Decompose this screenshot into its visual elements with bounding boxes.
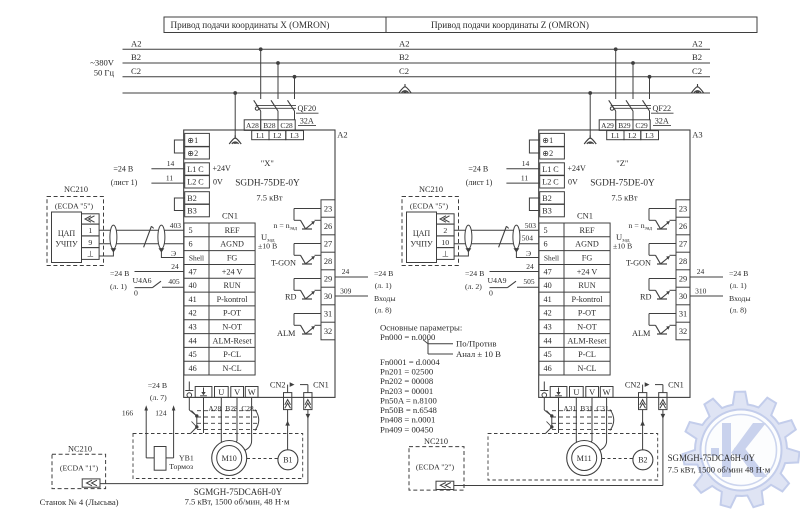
svg-text:47: 47 [189,267,197,276]
svg-text:Привод подачи координаты X (OM: Привод подачи координаты X (OMRON) [171,20,330,30]
svg-text:L2 C: L2 C [542,178,558,187]
svg-text:M11: M11 [577,454,592,463]
svg-text:P-OT: P-OT [223,309,241,318]
svg-text:N-CL: N-CL [577,364,596,373]
svg-text:U4A6: U4A6 [133,276,152,285]
svg-text:C29: C29 [635,121,648,130]
svg-text:+24 V: +24 V [577,267,598,276]
svg-text:B2: B2 [638,456,647,465]
svg-text:A2: A2 [399,38,410,48]
svg-text:AGND: AGND [575,240,599,249]
svg-text:Pn50A = n.8100: Pn50A = n.8100 [380,395,437,405]
svg-text:NC210: NC210 [424,437,448,446]
svg-text:ALM: ALM [277,329,296,338]
svg-text:50 Гц: 50 Гц [94,68,115,78]
svg-text:503: 503 [525,221,537,230]
svg-text:7.5 кВт, 1500 об/мин, 48 Н·м: 7.5 кВт, 1500 об/мин, 48 Н·м [185,496,290,506]
svg-text:P-kontrol: P-kontrol [572,295,604,304]
svg-text:(л. 1): (л. 1) [730,281,747,290]
svg-text:45: 45 [544,350,552,359]
svg-text:U: U [218,388,224,397]
svg-text:⊥: ⊥ [87,250,94,259]
svg-text:Э: Э [526,249,531,258]
svg-text:28: 28 [324,257,332,266]
svg-text:⊕1: ⊕1 [187,136,198,145]
svg-text:⊕2: ⊕2 [542,149,553,158]
svg-text:31: 31 [679,309,687,318]
svg-text:CN1: CN1 [222,211,238,221]
svg-text:Shell: Shell [544,253,559,262]
svg-text:29: 29 [679,274,687,283]
svg-text:5: 5 [189,226,193,235]
svg-text:CN1: CN1 [577,211,593,221]
svg-text:A3: A3 [692,129,702,139]
svg-text:P-CL: P-CL [223,350,241,359]
svg-text:CN2: CN2 [625,380,641,389]
svg-text:42: 42 [189,309,197,318]
svg-text:32A: 32A [655,117,669,126]
svg-text:27: 27 [679,239,687,248]
svg-text:43: 43 [544,323,552,332]
svg-text:(ECDA "5"): (ECDA "5") [55,202,94,211]
svg-text:30: 30 [324,292,332,301]
svg-text:CN1: CN1 [668,380,684,389]
svg-text:FG: FG [227,253,238,262]
svg-text:Анал ± 10 В: Анал ± 10 В [456,349,501,359]
svg-text:YB1: YB1 [179,453,194,462]
svg-text:~380V: ~380V [90,58,115,68]
svg-text:NC210: NC210 [64,185,88,194]
svg-text:C28: C28 [241,404,254,413]
svg-text:C2: C2 [399,66,409,76]
svg-text:0V: 0V [568,178,578,187]
svg-text:46: 46 [544,364,552,373]
svg-text:(л. 2): (л. 2) [465,282,482,291]
svg-text:QF22: QF22 [653,104,672,113]
svg-text:=24 В: =24 В [729,269,748,278]
svg-text:Pn50B = n.6548: Pn50B = n.6548 [380,405,437,415]
svg-text:По/Против: По/Против [456,339,496,349]
svg-text:RUN: RUN [223,281,240,290]
svg-text:M10: M10 [222,454,237,463]
svg-text:23: 23 [324,204,332,213]
svg-text:B2: B2 [692,52,702,62]
svg-text:C2: C2 [131,66,141,76]
svg-text:A2: A2 [337,129,347,139]
svg-text:505: 505 [523,277,535,286]
svg-text:±10 В: ±10 В [613,242,632,251]
svg-text:309: 309 [340,287,352,296]
svg-text:A28: A28 [208,404,221,413]
svg-text:31: 31 [324,309,332,318]
svg-text:0: 0 [489,288,493,297]
svg-text:=24 В: =24 В [465,269,484,278]
svg-text:ЦАП: ЦАП [58,229,76,238]
svg-text:=24 В: =24 В [148,381,167,390]
svg-text:24: 24 [697,267,705,276]
svg-text:RD: RD [285,293,297,302]
svg-text:CN2: CN2 [270,380,286,389]
svg-text:27: 27 [324,239,332,248]
svg-text:±10 В: ±10 В [258,242,277,251]
svg-text:41: 41 [189,295,197,304]
svg-text:RD: RD [640,293,652,302]
svg-text:Э: Э [171,249,176,258]
svg-text:(ECDA "1"): (ECDA "1") [60,463,99,472]
svg-text:=24 В: =24 В [468,165,488,174]
svg-text:44: 44 [189,336,197,345]
svg-text:166: 166 [122,408,133,417]
svg-text:405: 405 [168,277,180,286]
svg-text:+24 V: +24 V [222,267,243,276]
svg-text:10: 10 [441,238,449,247]
svg-text:Тормоз: Тормоз [169,462,193,471]
svg-text:B2: B2 [131,52,141,62]
svg-text:REF: REF [579,226,594,235]
svg-text:ALM-Reset: ALM-Reset [213,336,253,345]
svg-text:B2: B2 [399,52,409,62]
svg-text:=24 В: =24 В [374,269,393,278]
svg-text:0: 0 [134,288,138,297]
svg-text:SGDH-75DE-0Y: SGDH-75DE-0Y [235,178,300,188]
svg-text:A28: A28 [246,121,259,130]
svg-text:26: 26 [324,222,332,231]
svg-text:U: U [573,388,579,397]
svg-text:42: 42 [544,309,552,318]
svg-text:Входы: Входы [729,294,751,303]
svg-text:+24V: +24V [568,164,587,173]
svg-text:⊕1: ⊕1 [542,136,553,145]
svg-text:C31: C31 [596,404,609,413]
svg-text:=24 В: =24 В [110,269,129,278]
svg-text:6: 6 [544,240,548,249]
svg-text:P-CL: P-CL [578,350,596,359]
svg-text:(л. 1): (л. 1) [375,281,392,290]
svg-text:310: 310 [695,287,707,296]
svg-text:"Х": "Х" [261,158,274,168]
svg-text:24: 24 [342,267,350,276]
svg-text:L3: L3 [645,131,654,140]
svg-text:0V: 0V [213,178,223,187]
svg-text:L2 C: L2 C [187,178,203,187]
svg-text:B28: B28 [225,404,238,413]
svg-text:⊥: ⊥ [442,250,449,259]
svg-text:B2: B2 [542,194,551,203]
svg-text:A2: A2 [131,38,142,48]
svg-text:L3: L3 [290,131,299,140]
svg-text:Fn0001 = d.0004: Fn0001 = d.0004 [380,357,440,367]
svg-text:403: 403 [170,221,182,230]
svg-text:B1: B1 [283,456,292,465]
svg-text:45: 45 [189,350,197,359]
svg-text:ЦАП: ЦАП [413,229,431,238]
svg-text:N-CL: N-CL [223,364,242,373]
svg-text:(ECDA "5"): (ECDA "5") [410,202,449,211]
svg-text:B28: B28 [263,121,276,130]
svg-text:14: 14 [167,159,175,168]
svg-text:NC210: NC210 [68,444,92,453]
svg-text:24: 24 [526,262,534,271]
svg-text:Pn408 = n.0001: Pn408 = n.0001 [380,415,435,425]
svg-text:124: 124 [155,408,167,417]
svg-text:CN1: CN1 [313,380,329,389]
svg-text:AGND: AGND [220,240,244,249]
svg-text:A2: A2 [692,38,703,48]
svg-text:32: 32 [679,327,687,336]
svg-text:Shell: Shell [189,253,204,262]
svg-text:Pn201 = 02500: Pn201 = 02500 [380,366,434,376]
svg-text:23: 23 [679,204,687,213]
svg-text:6: 6 [189,240,193,249]
svg-text:RUN: RUN [578,281,595,290]
svg-text:T-GON: T-GON [271,259,296,268]
svg-text:7.5 кВт: 7.5 кВт [256,192,283,202]
svg-text:C28: C28 [280,121,293,130]
svg-text:SGDH-75DE-0Y: SGDH-75DE-0Y [590,178,655,188]
svg-text:7.5 кВт, 1500 об/мин 48 Н·м: 7.5 кВт, 1500 об/мин 48 Н·м [668,464,771,474]
svg-text:ALM: ALM [632,329,651,338]
svg-text:24: 24 [171,262,179,271]
svg-text:40: 40 [189,281,197,290]
svg-text:L2: L2 [273,131,282,140]
svg-text:B2: B2 [187,194,196,203]
svg-text:1: 1 [88,226,92,235]
svg-text:40: 40 [544,281,552,290]
svg-text:B29: B29 [618,121,631,130]
svg-text:11: 11 [166,173,173,182]
svg-text:44: 44 [544,336,552,345]
svg-text:U4A9: U4A9 [488,276,507,285]
svg-text:2: 2 [443,226,447,235]
svg-text:T-GON: T-GON [626,259,651,268]
svg-text:26: 26 [679,222,687,231]
svg-text:P-OT: P-OT [578,309,596,318]
svg-text:L1 C: L1 C [542,165,558,174]
svg-text:V: V [589,388,595,397]
svg-text:B3: B3 [187,207,196,216]
svg-text:(лист 1): (лист 1) [466,178,493,187]
svg-text:47: 47 [544,267,552,276]
svg-text:Привод подачи координаты Z (OM: Привод подачи координаты Z (OMRON) [431,20,589,30]
svg-text:FG: FG [582,253,593,262]
svg-text:14: 14 [522,159,530,168]
svg-text:B31: B31 [580,404,593,413]
svg-text:(ECDA "2"): (ECDA "2") [416,462,455,471]
svg-text:Основные параметры:: Основные параметры: [380,322,462,332]
svg-text:7.5 кВт: 7.5 кВт [611,192,638,202]
svg-text:Pn203 = 00001: Pn203 = 00001 [380,386,433,396]
svg-text:L1 C: L1 C [187,165,203,174]
svg-text:УЧПУ: УЧПУ [55,240,78,249]
svg-text:ALM-Reset: ALM-Reset [567,336,607,345]
svg-text:30: 30 [679,292,687,301]
svg-text:43: 43 [189,323,197,332]
svg-text:28: 28 [679,257,687,266]
svg-text:L2: L2 [628,131,637,140]
svg-text:C2: C2 [692,66,702,76]
svg-text:(л. 8): (л. 8) [730,305,747,314]
svg-text:Pn409 = 00450: Pn409 = 00450 [380,424,434,434]
svg-text:32: 32 [324,327,332,336]
svg-text:Станок № 4 (Лысьва): Станок № 4 (Лысьва) [40,497,119,507]
svg-text:L1: L1 [256,131,265,140]
svg-text:B3: B3 [542,207,551,216]
svg-text:SGMGH-75DCA6H-0Y: SGMGH-75DCA6H-0Y [668,453,756,463]
svg-text:QF20: QF20 [298,104,317,113]
svg-text:504: 504 [522,234,534,243]
svg-text:N-OT: N-OT [577,323,597,332]
svg-text:A31: A31 [563,404,576,413]
svg-text:V: V [234,388,240,397]
svg-text:+24V: +24V [213,164,232,173]
svg-text:(л. 7): (л. 7) [150,393,167,402]
svg-text:32A: 32A [300,117,314,126]
svg-text:W: W [248,388,256,397]
svg-text:A29: A29 [601,121,614,130]
svg-text:⊕2: ⊕2 [187,149,198,158]
svg-text:Входы: Входы [374,294,396,303]
svg-text:5: 5 [544,226,548,235]
svg-text:Pn202 = 00008: Pn202 = 00008 [380,376,434,386]
svg-text:N-OT: N-OT [222,323,242,332]
svg-text:УЧПУ: УЧПУ [410,240,433,249]
svg-text:P-kontrol: P-kontrol [217,295,249,304]
svg-text:29: 29 [324,274,332,283]
svg-text:11: 11 [521,173,528,182]
svg-text:L1: L1 [611,131,620,140]
svg-text:41: 41 [544,295,552,304]
svg-text:NC210: NC210 [419,185,443,194]
svg-text:(лист 1): (лист 1) [111,178,138,187]
svg-text:"Z": "Z" [616,158,628,168]
svg-text:9: 9 [88,238,92,247]
svg-text:W: W [603,388,611,397]
svg-text:(л. 1): (л. 1) [110,282,127,291]
svg-text:REF: REF [225,226,240,235]
svg-text:(л. 8): (л. 8) [375,305,392,314]
svg-text:46: 46 [189,364,197,373]
svg-text:=24 В: =24 В [113,165,133,174]
